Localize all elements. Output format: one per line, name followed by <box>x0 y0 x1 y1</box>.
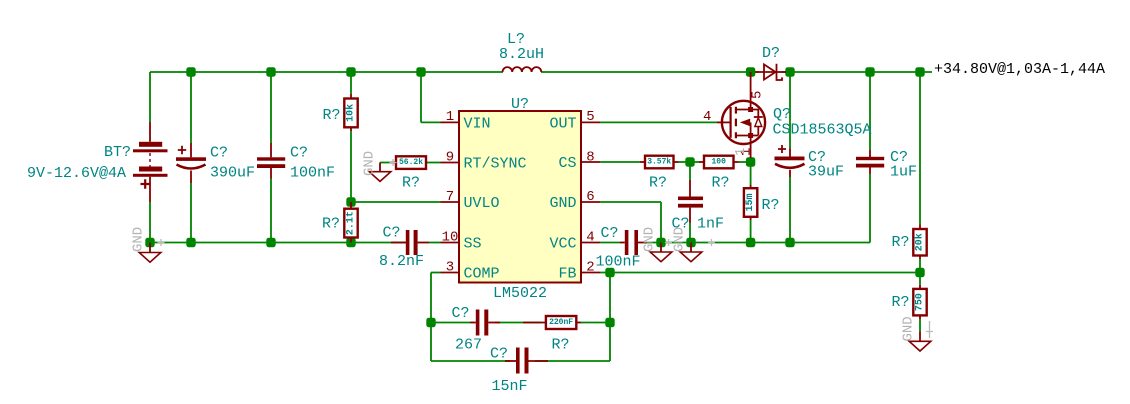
svg-text:5: 5 <box>750 91 766 99</box>
R750 box <box>913 289 926 316</box>
svg-text:100: 100 <box>711 158 726 167</box>
resistor R? 15m <box>744 185 757 220</box>
diode D? <box>755 64 786 80</box>
wire COMP node to C267 <box>431 322 470 324</box>
svg-text:5: 5 <box>586 109 594 125</box>
battery plate thin top <box>133 149 168 152</box>
svg-text:750: 750 <box>915 293 926 311</box>
junction gnd node R15m <box>746 238 755 247</box>
Q1 source pin <box>750 144 752 158</box>
R220nF right stub <box>576 322 581 324</box>
Q1 body diode leg <box>751 110 759 136</box>
Q1 gate bar <box>729 107 731 138</box>
R10k box <box>344 99 357 128</box>
junction COMP right node <box>605 318 614 327</box>
wire top rail diode cathode to output label <box>782 71 932 73</box>
R2.1k box <box>344 209 357 238</box>
wire R3.57k to 1nF node <box>679 161 691 163</box>
svg-text:RT/SYNC: RT/SYNC <box>464 156 527 173</box>
svg-text:GND: GND <box>362 151 378 176</box>
svg-text:10: 10 <box>442 230 459 246</box>
wire top rail inductor to drain junction <box>541 71 759 73</box>
wire comp lower branch to C15n <box>431 360 510 362</box>
gnd5 grey cross <box>926 321 933 338</box>
pin 6 GND stub <box>581 201 600 203</box>
svg-text:15nF: 15nF <box>492 378 528 395</box>
C1nF bottom lead <box>689 208 691 223</box>
C15n right plate <box>525 348 529 374</box>
resistor R? 10k <box>344 94 357 131</box>
wire C390 top <box>190 72 192 143</box>
wire CS pin8 to R3.57k <box>600 161 640 163</box>
svg-text:GND: GND <box>642 227 658 252</box>
svg-text:39uF: 39uF <box>808 164 844 181</box>
C8.2n right lead <box>418 242 429 244</box>
gnd1 triangle <box>139 253 161 263</box>
svg-text:R?: R? <box>892 294 910 311</box>
C390 plus sign <box>178 146 186 154</box>
C39u top lead <box>789 149 791 158</box>
svg-text:CS: CS <box>558 155 576 172</box>
svg-text:R?: R? <box>323 107 341 124</box>
junction gnd rail C100n <box>266 238 275 247</box>
junction CS 1nF node <box>685 157 694 166</box>
Q1 drain internal <box>736 101 751 110</box>
battery bottom lead <box>149 177 151 202</box>
svg-text:2: 2 <box>586 260 594 276</box>
capacitor C? 100nF VCC <box>620 230 647 255</box>
junction gnd rail R2.1k <box>346 238 355 247</box>
junction top rail C390 <box>186 67 195 76</box>
wire R15m bottom <box>750 220 752 243</box>
R15m box <box>744 188 757 217</box>
Q1 channel segments <box>735 107 737 138</box>
ground divider <box>901 316 934 351</box>
gnd1 pin <box>149 243 151 253</box>
svg-text:10k: 10k <box>345 104 357 122</box>
wire FB drop vertical <box>609 273 611 362</box>
svg-text:9V-12.6V@4A: 9V-12.6V@4A <box>27 165 126 182</box>
C390 top plate <box>176 157 206 161</box>
gnd2 grey cross <box>390 159 397 166</box>
wire C8.2n right to pin10 <box>429 242 441 244</box>
svg-text:4: 4 <box>703 109 711 125</box>
resistor R? 3.57k <box>640 156 679 169</box>
ground battery <box>131 227 165 262</box>
wire C39u top <box>789 72 791 149</box>
svg-text:8.2nF: 8.2nF <box>379 253 424 270</box>
battery plate thin bottom <box>133 174 168 177</box>
junction top rail VIN <box>416 67 425 76</box>
C39u plus sign <box>778 145 786 153</box>
svg-text:1: 1 <box>446 109 454 125</box>
svg-text:8: 8 <box>586 150 594 166</box>
svg-text:267: 267 <box>455 337 482 354</box>
wire battery top <box>149 72 151 122</box>
U1 pin stubs <box>441 122 601 272</box>
wire GND pin6 vertical <box>660 202 662 243</box>
svg-text:OUT: OUT <box>549 115 576 132</box>
R750 bottom stub <box>919 315 921 319</box>
C390 top lead <box>190 143 192 157</box>
C267 left plate <box>476 310 480 336</box>
R3.57k left stub <box>640 161 645 163</box>
Cvcc right plate <box>634 230 638 255</box>
junction top rail diode cathode <box>785 67 794 76</box>
pin 8 CS stub <box>581 161 600 163</box>
C1uF bottom lead <box>869 168 871 175</box>
svg-text:220nF: 220nF <box>549 318 573 327</box>
gnd2 triangle <box>369 172 391 182</box>
gnd2 pin <box>379 163 381 172</box>
wire output divider vertical <box>919 72 921 225</box>
C39u top plate <box>775 157 805 161</box>
wire FB long run to divider <box>610 272 920 274</box>
svg-text:SS: SS <box>464 236 482 253</box>
gnd3 grey cross <box>665 239 672 246</box>
R10k top stub <box>350 94 352 99</box>
R56.2k box <box>396 156 426 169</box>
R100 right stub <box>734 161 739 163</box>
junction top rail C1uF <box>865 67 874 76</box>
svg-text:15m: 15m <box>745 193 756 211</box>
wire RT/SYNC gnd to R56.2k <box>380 162 391 164</box>
svg-text:8.2uH: 8.2uH <box>499 46 544 63</box>
pin 9 RT/SYNC stub <box>441 162 460 164</box>
wire C100n top <box>270 72 272 143</box>
resistor R? 100 <box>699 156 739 169</box>
junction COMP node <box>426 318 435 327</box>
R3.57k right stub <box>674 161 679 163</box>
R15m top stub <box>750 185 752 188</box>
capacitor C? 1nF <box>678 180 703 223</box>
wire C390 bottom <box>190 183 192 243</box>
diode cathode bar with schottky foot <box>777 64 783 80</box>
wire bottom ground rail left <box>150 242 406 244</box>
wire source node to R15m <box>750 162 752 185</box>
capacitor C? 39uF <box>775 145 805 177</box>
C267 right plate <box>484 310 488 336</box>
svg-text:3: 3 <box>446 260 454 276</box>
junction top rail drain <box>746 67 755 76</box>
capacitor C? 100nF input <box>257 143 285 178</box>
wire VCC pin4 to cap <box>600 242 620 244</box>
C1uF bottom plate <box>856 164 884 168</box>
svg-text:C?: C? <box>490 346 508 363</box>
svg-text:C?: C? <box>601 225 619 242</box>
capacitor C? 8.2nF <box>391 230 429 255</box>
C1nF bottom plate <box>678 204 703 208</box>
C8.2n left plate <box>406 230 410 255</box>
gnd5 triangle <box>909 341 931 351</box>
R750 top stub <box>919 285 921 289</box>
U1 pin numbers <box>442 109 595 276</box>
junction UVLO node <box>346 197 355 206</box>
junction gnd rail battery <box>145 238 154 247</box>
R20k bottom stub <box>919 256 921 260</box>
svg-text:FB: FB <box>558 266 576 283</box>
junction source node <box>746 157 755 166</box>
wires layer <box>150 72 932 361</box>
svg-text:BT?: BT? <box>104 144 131 161</box>
svg-text:R?: R? <box>762 197 780 214</box>
wire comp lower branch left vertical <box>430 323 432 362</box>
wire R10k top <box>350 72 352 94</box>
junction FB divider <box>915 268 924 277</box>
svg-text:UVLO: UVLO <box>464 195 500 212</box>
C390 curved plate <box>177 165 206 169</box>
junction top rail divider <box>915 67 924 76</box>
R2.1k bottom stub <box>350 238 352 243</box>
gnd5 pin <box>919 332 921 342</box>
R20k box <box>913 229 926 256</box>
svg-text:GND: GND <box>549 195 576 212</box>
wire R56.2k to pin9 <box>427 162 441 164</box>
wire VCC cap to gnd node <box>644 242 661 244</box>
wire R10k bottom to UVLO node <box>350 131 352 202</box>
wire C100n bottom <box>270 178 272 243</box>
Q1 body diode triangle <box>755 118 762 127</box>
Cvcc left plate <box>625 230 629 255</box>
gnd4 triangle <box>680 252 702 262</box>
Q1 body diode cathode bar <box>754 116 763 118</box>
wire C39u bottom <box>789 177 791 243</box>
wire R20k to FB node <box>919 259 921 273</box>
diode cathode lead <box>777 71 787 73</box>
R20k top stub <box>919 225 921 230</box>
battery dashed link <box>149 153 151 167</box>
junction top rail C100n <box>266 67 275 76</box>
R3.57k box <box>645 156 674 169</box>
svg-text:3.57k: 3.57k <box>647 158 671 167</box>
ground VCC cap <box>642 227 673 262</box>
svg-text:20k: 20k <box>914 233 926 251</box>
C15n left plate <box>516 348 520 374</box>
wire C15n to right vertical <box>535 360 610 362</box>
svg-text:R?: R? <box>712 175 730 192</box>
svg-text:VCC: VCC <box>549 236 576 253</box>
wire R2.1k bottom junction <box>350 238 352 243</box>
battery plus sign <box>141 179 151 188</box>
R10k bottom stub <box>350 127 352 131</box>
C267 left lead <box>470 322 476 324</box>
wire R220nF to FB drop node <box>581 322 610 324</box>
svg-text:C?: C? <box>383 225 401 242</box>
C1uF top plate <box>856 157 884 160</box>
C1uF top lead <box>869 150 871 157</box>
svg-text:R?: R? <box>402 175 420 192</box>
svg-text:2.1t: 2.1t <box>346 211 357 235</box>
C39u curved plate <box>775 164 805 168</box>
svg-text:56.2k: 56.2k <box>399 158 423 167</box>
capacitor C? 1uF <box>856 150 884 174</box>
wire VIN branch horizontal <box>421 121 441 123</box>
junction top rail R10k <box>346 67 355 76</box>
svg-text:COMP: COMP <box>464 266 500 283</box>
svg-text:LM5022: LM5022 <box>493 285 547 302</box>
Q1 source internal <box>736 136 758 145</box>
R56.2k left stub <box>391 162 396 164</box>
wire R750 to gnd <box>919 319 921 332</box>
gnd1 grey cross <box>158 239 165 246</box>
wire UVLO node to pin7 <box>351 201 441 203</box>
Q1 circle <box>722 101 765 144</box>
U1 pin names <box>464 115 577 282</box>
R15m bottom stub <box>750 217 752 220</box>
pin 1 VIN stub <box>441 121 460 123</box>
resistor R? 2.1k <box>344 202 357 243</box>
battery plate thick bottom <box>139 167 162 172</box>
C390 bottom lead <box>190 171 192 184</box>
Q1 gate lead <box>717 121 730 123</box>
svg-text:1: 1 <box>733 148 749 156</box>
wire gnd rail 790-870 <box>790 242 870 244</box>
Q1 source junction square <box>748 133 753 138</box>
wire gnd rail 691-750 <box>691 242 751 244</box>
junction gnd node C1nF <box>686 238 695 247</box>
capacitor C? 390uF <box>176 143 206 183</box>
resistor R? 220nF <box>523 316 581 329</box>
wire C1nF lower to gnd rail <box>689 223 691 243</box>
wire OUT pin5 to gate <box>600 121 717 123</box>
wire C1uF top vertical <box>869 72 871 150</box>
svg-text:R?: R? <box>649 175 667 192</box>
junction gnd rail C390 <box>186 238 195 247</box>
wire R100 to source node <box>739 161 751 163</box>
svg-text:1nF: 1nF <box>697 216 724 233</box>
resistor R? 20k <box>913 225 926 260</box>
R220nF box <box>546 316 576 329</box>
Cvcc right lead <box>638 242 647 244</box>
Q1 drain junction square <box>748 107 753 112</box>
C100n bottom plate <box>257 164 285 168</box>
svg-text:R?: R? <box>892 234 910 251</box>
battery top lead <box>149 122 151 142</box>
wire VIN branch vertical <box>420 72 422 122</box>
junction FB drop <box>605 268 614 277</box>
resistor R? 56.2k <box>391 156 426 169</box>
C100n bottom lead <box>270 168 272 178</box>
svg-text:GND: GND <box>672 227 688 252</box>
capacitor C? 15nF <box>505 348 548 374</box>
battery BT? <box>133 122 168 202</box>
svg-text:R?: R? <box>552 337 570 354</box>
pin 7 UVLO stub <box>441 201 460 203</box>
svg-text:CSD18563Q5A: CSD18563Q5A <box>773 122 872 139</box>
svg-text:C?: C? <box>290 145 308 162</box>
gnd3 triangle <box>650 252 672 262</box>
transistor Q1 CSD18563Q5A <box>703 72 766 158</box>
diode triangle <box>764 64 776 79</box>
svg-text:9: 9 <box>446 150 454 166</box>
svg-text:U?: U? <box>511 96 529 113</box>
R2.1k top stub <box>350 202 352 209</box>
wire FB node to R750 <box>919 273 921 286</box>
svg-text:6: 6 <box>586 189 594 205</box>
R100 left stub <box>699 161 704 163</box>
C15n left lead <box>505 360 516 362</box>
C39u bottom lead <box>789 170 791 177</box>
svg-text:+34.80V@1,03A-1,44A: +34.80V@1,03A-1,44A <box>934 61 1105 78</box>
svg-text:4: 4 <box>586 230 594 246</box>
wire C1uF bottom vertical <box>869 174 871 243</box>
Q1 drain pin <box>750 72 752 101</box>
Cvcc left lead <box>620 242 625 244</box>
wire FB pin2 to drop node <box>600 272 610 274</box>
junction gnd node VCC cap <box>656 238 665 247</box>
ground RT/SYNC <box>362 151 397 182</box>
resistor R? 750 <box>913 285 926 319</box>
svg-text:C?: C? <box>210 145 228 162</box>
svg-text:7: 7 <box>446 189 454 205</box>
svg-text:100nF: 100nF <box>290 165 335 182</box>
battery plate thick top <box>139 142 162 147</box>
svg-text:R?: R? <box>322 216 340 233</box>
wire COMP pin3 horizontal <box>431 272 441 274</box>
svg-text:1uF: 1uF <box>890 164 917 181</box>
C1nF top plate <box>678 197 703 201</box>
inductor L? 8.2uH <box>503 67 542 72</box>
Q1 source arrow link <box>750 122 752 133</box>
wire C1nF upper <box>689 162 691 180</box>
ground C1nF <box>672 227 716 262</box>
diode anode lead <box>755 71 777 73</box>
wire COMP vertical <box>430 273 432 323</box>
svg-text:D?: D? <box>762 45 780 62</box>
svg-text:100nF: 100nF <box>596 254 641 271</box>
svg-text:GND: GND <box>131 227 147 252</box>
gnd4 pin <box>690 243 692 253</box>
svg-text:VIN: VIN <box>464 115 491 132</box>
capacitor C? 267 <box>470 310 500 336</box>
wire gnd rail 750-790 <box>751 242 790 244</box>
C100n top plate <box>257 157 285 160</box>
svg-text:390uF: 390uF <box>210 165 255 182</box>
op-amp/controller U? LM5022 body <box>459 111 581 283</box>
C100n top lead <box>270 143 272 157</box>
svg-text:Q?: Q? <box>773 106 791 123</box>
wire battery bottom <box>149 202 151 243</box>
junction gnd node C39u <box>785 238 794 247</box>
C15n right lead <box>529 360 549 362</box>
wire GND pin6 horizontal <box>600 201 661 203</box>
pin 5 OUT stub <box>581 121 600 123</box>
svg-text:GND: GND <box>901 316 917 341</box>
C8.2n left lead <box>391 242 406 244</box>
wire top rail left of inductor <box>150 71 503 73</box>
pin 10 SS stub <box>441 242 460 244</box>
wire C267 to R220nF <box>495 322 541 324</box>
pin 2 FB stub <box>581 272 600 274</box>
R100 box <box>704 156 734 169</box>
pin 4 VCC stub <box>581 242 600 244</box>
wire gnd rail 661-691 <box>661 242 691 244</box>
gnd4 grey cross <box>708 239 715 246</box>
C1nF top lead <box>689 180 691 197</box>
wire 1nF node to R100 <box>690 161 699 163</box>
gnd3 pin <box>660 243 662 253</box>
svg-text:C?: C? <box>452 305 470 322</box>
C8.2n right plate <box>414 230 418 255</box>
R220nF left stub <box>523 322 546 324</box>
pin 3 COMP stub <box>441 272 460 274</box>
C267 right lead <box>488 322 500 324</box>
Q1 source arrow <box>740 119 750 127</box>
